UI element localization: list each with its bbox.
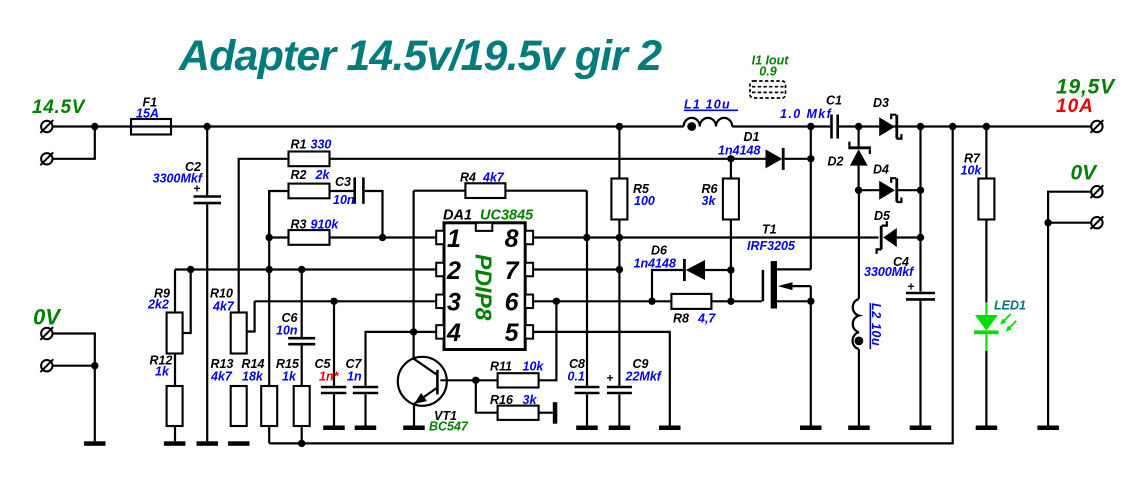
resistor R7 xyxy=(961,127,995,303)
ground: C2 xyxy=(197,441,219,446)
zener D2 xyxy=(828,127,871,191)
node: pin8/R4 xyxy=(583,234,590,241)
wire: +14.5V rail left part xyxy=(53,125,684,127)
svg-text:15A: 15A xyxy=(136,107,159,121)
resistor R1 xyxy=(289,152,330,167)
resistor R14 xyxy=(261,386,277,426)
node: rail / feedback column xyxy=(949,123,956,130)
node: C2 tap on rail xyxy=(204,123,211,130)
pin 2 stub xyxy=(436,263,444,277)
node: pin2/x269 xyxy=(266,266,273,273)
wire: R11 right up to pin6 xyxy=(539,301,557,380)
terminal: 0V output pin 1 xyxy=(1091,185,1104,198)
svg-text:R3: R3 xyxy=(291,218,307,232)
capacitor C8 xyxy=(568,238,600,426)
svg-text:C1: C1 xyxy=(826,94,842,108)
node: 0V input junction xyxy=(91,362,98,369)
svg-text:2k: 2k xyxy=(315,168,331,182)
diode D4 xyxy=(873,163,901,203)
capacitor C2 xyxy=(153,127,221,442)
svg-text:PDIP8: PDIP8 xyxy=(471,254,497,321)
svg-text:R10: R10 xyxy=(210,287,233,301)
resistor R12 xyxy=(167,386,183,426)
ground: VT1 emitter xyxy=(403,426,425,431)
ammeter I1 Iout xyxy=(750,54,789,99)
wire: D4 row xyxy=(859,189,880,191)
svg-text:D3: D3 xyxy=(873,96,889,110)
capacitor C5 xyxy=(315,301,347,425)
ground: LED xyxy=(976,426,998,431)
svg-text:0V: 0V xyxy=(33,305,62,330)
transistor T1 IRF3205 xyxy=(747,222,811,308)
ground: C4 xyxy=(910,426,932,431)
wire: bottom feedback rail xyxy=(269,127,953,444)
svg-text:+: + xyxy=(193,182,200,196)
node: D1 cathode / drain column xyxy=(807,155,814,162)
pin 7 stub xyxy=(525,263,533,277)
ground: C8 xyxy=(576,426,598,431)
resistor R8 xyxy=(671,294,711,309)
svg-text:10k: 10k xyxy=(523,360,545,374)
node: rail / R7 xyxy=(983,123,990,130)
wire: 0V input branch xyxy=(53,334,95,442)
wire: R2 right to C3 xyxy=(330,190,354,192)
svg-text:R2: R2 xyxy=(291,168,307,182)
node: rail/R5 xyxy=(616,123,623,130)
node: D6 anode / R6 xyxy=(727,266,734,273)
ground: C5 xyxy=(323,426,345,431)
diode D3 xyxy=(873,96,901,139)
transistor VT1 BC547 xyxy=(398,332,469,434)
wire: R16 to side ground xyxy=(539,412,553,414)
svg-text:0.9: 0.9 xyxy=(759,65,776,79)
svg-text:R1: R1 xyxy=(291,138,307,152)
inductor L2 xyxy=(853,299,883,426)
fuse F1 xyxy=(131,119,171,135)
svg-text:1.0 Mkf: 1.0 Mkf xyxy=(780,107,833,121)
wire: R1 right to D1 anode xyxy=(330,158,766,160)
svg-text:100: 100 xyxy=(634,194,655,208)
svg-text:R16: R16 xyxy=(490,393,514,407)
node: R8/gate/R6 xyxy=(727,298,734,305)
wire: input terminal 2 branch xyxy=(53,127,95,159)
terminal: 0V input pin 1 xyxy=(40,327,53,340)
capacitor C4 xyxy=(864,255,935,426)
wire: pin3 row xyxy=(255,300,437,302)
svg-text:IRF3205: IRF3205 xyxy=(747,239,796,253)
node: pin2/R15 column xyxy=(298,266,305,273)
resistor R6 xyxy=(723,179,739,220)
svg-text:6: 6 xyxy=(505,289,520,317)
wire: R9 column xyxy=(174,270,176,442)
node: pin4 / VT1 collector xyxy=(410,328,417,335)
capacitor C3 xyxy=(333,175,383,238)
svg-text:330: 330 xyxy=(311,138,332,152)
svg-text:10k: 10k xyxy=(961,164,983,178)
node: rail / D2 xyxy=(855,123,862,130)
terminal: +19.5V output xyxy=(1091,120,1104,133)
svg-text:+: + xyxy=(606,371,613,385)
capacitor C7 xyxy=(346,357,379,426)
svg-text:4k7: 4k7 xyxy=(210,369,233,383)
svg-text:R11: R11 xyxy=(490,360,512,374)
svg-text:3k: 3k xyxy=(523,393,538,407)
node: rail / T1 drain column xyxy=(807,123,814,130)
inductor L1 xyxy=(684,98,738,131)
svg-text:1n4148: 1n4148 xyxy=(634,257,676,271)
pin 1 stub xyxy=(436,231,444,245)
wire: R15 bottom to feedback rail xyxy=(301,426,303,443)
svg-text:3: 3 xyxy=(447,289,461,317)
svg-text:1k: 1k xyxy=(155,365,170,379)
svg-text:UC3845: UC3845 xyxy=(480,208,534,224)
wire: R10 wiper to pin3 xyxy=(248,301,255,331)
svg-text:3300Mkf: 3300Mkf xyxy=(864,265,915,279)
svg-text:2: 2 xyxy=(446,257,461,285)
svg-text:3k: 3k xyxy=(702,194,717,208)
node: R3 left xyxy=(266,234,273,241)
ground: pin5 xyxy=(659,426,681,431)
node: pin7/R5 column xyxy=(616,266,623,273)
wire: pin6 row to R8 xyxy=(533,300,671,302)
node: pin8/R5 xyxy=(616,234,623,241)
svg-text:10n: 10n xyxy=(276,323,298,337)
svg-text:BC547: BC547 xyxy=(429,420,469,434)
wire: R2 branch xyxy=(269,191,288,238)
op-amp DA1 UC3845 body xyxy=(443,208,534,350)
svg-text:10A: 10A xyxy=(1056,96,1094,117)
wire: R15/C6 column xyxy=(301,270,303,338)
svg-text:0V: 0V xyxy=(1071,162,1099,185)
capacitor C1 xyxy=(780,94,842,139)
wire: pin2 row xyxy=(175,268,436,270)
ground: C9 xyxy=(609,426,631,431)
wire: T1 source column xyxy=(810,286,812,425)
node: rail / D3 cathode column xyxy=(917,123,924,130)
svg-text:18k: 18k xyxy=(242,369,264,383)
terminal: +14.5V input pin 2 xyxy=(40,152,53,165)
wire: pin7 row xyxy=(533,268,619,270)
wire: x920 column xyxy=(919,127,921,292)
node: D5 anode xyxy=(917,234,924,241)
node: D4 cathode xyxy=(917,187,924,194)
resistor R11 xyxy=(498,373,539,387)
diode D1 1n4148 xyxy=(718,130,811,170)
wire: T1 drain column xyxy=(810,127,812,270)
capacitor C6 xyxy=(276,311,315,386)
svg-text:10n: 10n xyxy=(333,193,355,207)
pin 3 stub xyxy=(436,295,444,309)
wire: R6 column xyxy=(730,159,732,179)
svg-text:7: 7 xyxy=(505,257,520,285)
wire: pin4 row from C7 xyxy=(366,332,437,386)
pin 4 stub xyxy=(436,325,444,339)
svg-text:4: 4 xyxy=(446,319,461,347)
node: D2/D4 junction xyxy=(855,187,862,194)
svg-text:D1: D1 xyxy=(744,130,760,144)
wire: pin5 row to ground xyxy=(533,332,670,426)
svg-text:D5: D5 xyxy=(874,209,891,223)
svg-text:D6: D6 xyxy=(651,244,668,258)
ground: 0V output xyxy=(1037,426,1059,431)
node: T1 source xyxy=(807,298,814,305)
ground: R16 (sideways) xyxy=(553,402,558,424)
resistor R13 xyxy=(231,386,247,426)
node: pin2/R9 wiper xyxy=(187,266,194,273)
svg-text:2k2: 2k2 xyxy=(147,298,169,312)
terminal: 0V input pin 2 xyxy=(40,359,53,372)
node: base/R11/R16 xyxy=(472,377,479,384)
pin 8 stub xyxy=(525,231,533,245)
diode D6 1n4148 xyxy=(634,244,731,302)
svg-text:910k: 910k xyxy=(311,218,340,232)
svg-text:22Mkf: 22Mkf xyxy=(625,369,663,383)
svg-text:Adapter 14.5v/19.5v gir 2: Adapter 14.5v/19.5v gir 2 xyxy=(178,32,662,80)
wire: 0V output branch xyxy=(1048,192,1091,426)
wire: x269 column R2-R3-pin2-R14 xyxy=(268,191,270,443)
svg-text:4k7: 4k7 xyxy=(212,300,235,314)
svg-text:1n: 1n xyxy=(347,369,362,383)
ground: C7 xyxy=(355,426,377,431)
resistor R15 xyxy=(294,386,310,426)
resistor R9 (trimmer) xyxy=(167,313,183,354)
wire: R8 right to gate xyxy=(711,300,761,302)
wire: R1 left lead down to R10 column xyxy=(239,159,289,313)
svg-text:T1: T1 xyxy=(762,222,777,236)
resistor R4 xyxy=(414,171,587,332)
svg-text:1n*: 1n* xyxy=(319,369,340,383)
svg-text:8: 8 xyxy=(505,225,519,253)
pin 6 stub xyxy=(525,295,533,309)
svg-text:+: + xyxy=(907,280,914,294)
node: 0V output junction xyxy=(1044,219,1051,226)
terminal: +14.5V input pin 1 xyxy=(40,120,53,133)
wire: R9 wiper xyxy=(183,270,191,334)
svg-text:R4: R4 xyxy=(460,171,476,185)
svg-text:14.5V: 14.5V xyxy=(32,97,86,118)
svg-text:DA1: DA1 xyxy=(443,208,472,224)
capacitor C9 xyxy=(606,357,662,426)
node: input junction xyxy=(91,123,98,130)
node: R15/bottom rail xyxy=(298,440,305,447)
resistor R2 xyxy=(289,184,330,199)
wire: pin1 row (R3 line) xyxy=(269,236,436,238)
svg-text:1n4148: 1n4148 xyxy=(718,144,760,158)
resistor R10 (trimmer) xyxy=(231,313,247,354)
LED1 xyxy=(974,299,1026,426)
ground: 0V input xyxy=(84,441,106,446)
svg-text:1k: 1k xyxy=(282,369,297,383)
svg-text:R8: R8 xyxy=(673,312,689,326)
node: pin3/C5 xyxy=(330,298,337,305)
svg-text:5: 5 xyxy=(505,319,520,347)
ground: R13 xyxy=(228,441,250,446)
svg-text:D4: D4 xyxy=(873,163,889,177)
ground: R12 xyxy=(164,441,186,446)
node: R3 right / C3 xyxy=(379,234,386,241)
resistor R3 xyxy=(289,230,330,245)
svg-text:4,7: 4,7 xyxy=(697,312,716,326)
node: pin6/D6 xyxy=(648,298,655,305)
terminal: 0V output pin 2 xyxy=(1091,216,1104,229)
svg-text:LED1: LED1 xyxy=(994,299,1026,313)
ground: T1 source xyxy=(800,426,822,431)
svg-text:4k7: 4k7 xyxy=(482,171,505,185)
wire: pin8 row to D5 xyxy=(533,236,878,238)
resistor R5 xyxy=(611,179,627,220)
svg-text:D2: D2 xyxy=(828,154,844,168)
svg-text:0.1: 0.1 xyxy=(568,369,585,383)
ground: L2 xyxy=(848,426,870,431)
diode D5 xyxy=(874,209,921,254)
svg-text:L1 10u: L1 10u xyxy=(684,98,731,112)
pin 5 stub xyxy=(525,325,533,339)
resistor R16 xyxy=(498,406,539,420)
node: pin6/R11 xyxy=(553,298,560,305)
wire: +14.5V rail right part xyxy=(839,125,1091,127)
node: D1 row / R6 xyxy=(727,155,734,162)
wire: R5/C9 column xyxy=(618,127,620,179)
wire: L2 column from D2/D4 xyxy=(858,190,860,299)
svg-text:1: 1 xyxy=(447,225,461,253)
wire: VT1 base lead to R11 xyxy=(440,379,497,381)
svg-text:C3: C3 xyxy=(335,175,351,189)
wire: R16 branch xyxy=(476,380,498,412)
